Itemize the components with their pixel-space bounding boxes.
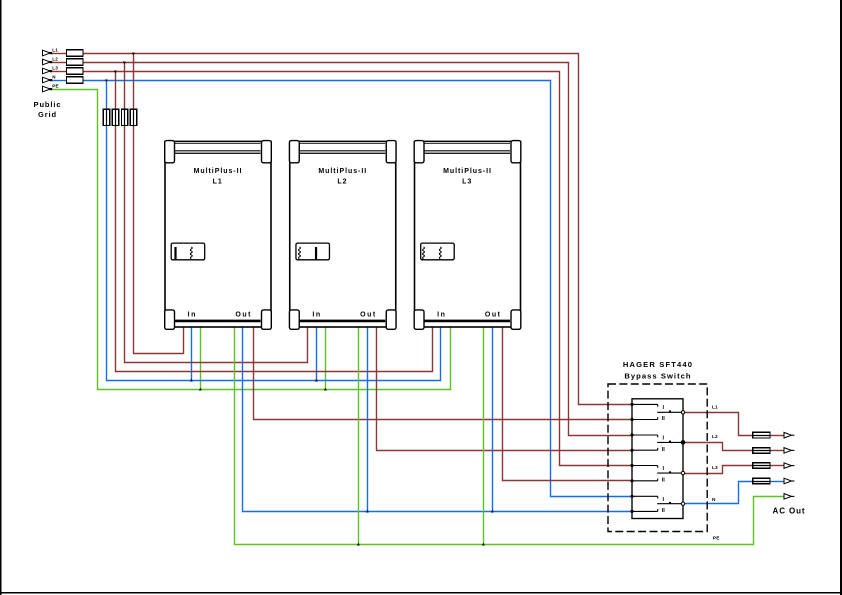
wire grid N horizontal to bypass: [52, 80, 67, 82]
junction N out bus at U3: [491, 510, 494, 513]
svg-text:Public: Public: [34, 100, 62, 109]
junction N bus at U2: [315, 379, 318, 382]
junction N tee at grid line: [105, 80, 108, 83]
switch pole 4 contact I: [634, 495, 658, 497]
svg-text:Bypass Switch: Bypass Switch: [624, 371, 691, 380]
svg-text:N: N: [712, 497, 716, 503]
wire PE branch up into unit U2 In: [325, 328, 327, 390]
switch pole 4 common blade: [657, 503, 681, 505]
inverter U3 MultiPlus-II L3 body: [415, 141, 521, 327]
wire U2 Out PE branch: [358, 328, 360, 545]
junction L1 tee at grid line: [132, 53, 135, 56]
drawing frame border: [0, 0, 2, 595]
junction PE out bus at U3: [482, 543, 485, 546]
U2 corner mounts: [289, 141, 299, 163]
svg-text:MultiPlus-II: MultiPlus-II: [443, 168, 492, 175]
switch pole 2 input terminals: [630, 433, 633, 436]
svg-text:In: In: [188, 311, 197, 318]
wire grid L2 horizontal to bypass: [52, 62, 67, 64]
terminal block L3: [67, 68, 84, 75]
junction L2 tee at grid line: [123, 62, 126, 65]
terminal AC Out PE: [784, 494, 792, 500]
switch pole 2 output terminal: [681, 440, 686, 445]
wire bypass L2 output to fuse F6: [685, 443, 753, 451]
wire PE output bus from units to AC Out PE terminal: [235, 328, 785, 545]
U3 connector box: [421, 243, 455, 260]
U1 connector box: [171, 243, 205, 260]
wire grid PE down and across to unit PE inputs: [52, 90, 451, 390]
svg-text:HAGER SFT440: HAGER SFT440: [623, 360, 693, 369]
fuse F7 (AC out): [753, 463, 770, 469]
svg-text:In: In: [437, 311, 446, 318]
svg-text:MultiPlus-II: MultiPlus-II: [194, 168, 243, 175]
wire N branch up into unit U1 In: [191, 328, 193, 381]
junction N bus at U1: [190, 379, 193, 382]
svg-text:MultiPlus-II: MultiPlus-II: [318, 168, 367, 175]
svg-text:L3: L3: [52, 65, 58, 70]
switch pole 1 contact II: [634, 419, 658, 421]
wire U2 Out N branch: [367, 328, 369, 512]
junction PE bus at U2: [324, 388, 327, 391]
terminal AC Out L2: [784, 448, 792, 454]
terminal Public Grid N: [43, 77, 51, 83]
wire bypass L3 output to fuse F7: [685, 466, 753, 474]
svg-text:II: II: [662, 477, 666, 483]
wire U3 Out PE branch: [483, 328, 485, 545]
junction L3 tee at grid line: [114, 71, 117, 74]
wire N drop through fuse F1 and across to unit N inputs: [106, 81, 108, 110]
switch pole 2 contact II: [634, 449, 658, 451]
terminal block N: [67, 77, 84, 84]
fuse F5 (AC out): [753, 432, 770, 438]
svg-text:L1: L1: [52, 47, 58, 52]
wire grid L3 horizontal to bypass: [52, 71, 67, 73]
U3 corner mounts: [414, 141, 424, 163]
switch pole 4 contact II: [634, 510, 658, 512]
switch pole 2 contact I: [634, 434, 658, 436]
wire bypass N output to fuse F8: [685, 482, 753, 504]
terminal AC Out L1: [784, 432, 792, 438]
wire N branch up into unit U2 In: [316, 328, 318, 381]
switch pole 3 contact I: [634, 465, 658, 467]
svg-text:PE: PE: [52, 83, 58, 88]
terminal Public Grid PE: [43, 86, 51, 92]
U2 connector box: [296, 243, 330, 260]
wire U1 Out L to bypass contact 1-II: [254, 328, 631, 420]
svg-text:L2: L2: [52, 56, 58, 61]
fuse F3 (L2): [121, 109, 127, 125]
svg-text:Out: Out: [360, 311, 377, 318]
junction PE bus at U1: [199, 388, 202, 391]
switch pole 1 output terminal: [681, 411, 684, 414]
switch pole 4 input terminals: [630, 495, 633, 498]
wire L3 drop through fuse F2 to unit U3 In L: [115, 72, 117, 110]
svg-text:Out: Out: [485, 311, 502, 318]
svg-text:PE: PE: [713, 536, 720, 542]
svg-text:L3: L3: [712, 465, 718, 471]
U1 corner mounts: [165, 141, 175, 163]
switch pole 3 common blade: [657, 472, 681, 474]
switch pole 2 common blade: [657, 441, 681, 443]
switch pole 3 output terminal: [681, 471, 684, 474]
switch pole 3 contact II: [634, 480, 658, 482]
inverter U1 MultiPlus-II L1 body: [165, 141, 271, 327]
svg-text:L2: L2: [712, 434, 718, 440]
terminal block L1: [67, 50, 84, 57]
terminal AC Out L3: [784, 463, 792, 469]
fuse F1 (N): [103, 109, 109, 125]
switch pole 1 common blade: [657, 411, 681, 413]
wire bypass L1 output to fuse F5: [685, 413, 753, 436]
wire U3 Out L to bypass contact 3-II: [503, 328, 631, 481]
bypass switch S1 HAGER SFT440 dashed enclosure: [608, 384, 707, 532]
wire L2 drop through fuse F3 to unit U2 In L: [124, 63, 126, 110]
terminal Public Grid L1: [43, 50, 51, 56]
fuse F6 (AC out): [753, 448, 770, 454]
svg-text:II: II: [662, 508, 666, 514]
switch pole 1 input terminals: [630, 403, 633, 406]
switch pole 1 contact I: [634, 403, 658, 405]
terminal block L2: [67, 59, 84, 66]
terminal Public Grid L3: [43, 68, 51, 74]
fuse F2 (L3): [112, 109, 118, 125]
wire U3 Out N branch: [492, 328, 494, 512]
svg-text:L2: L2: [337, 179, 347, 186]
fuse F8 (AC out): [753, 478, 770, 484]
terminal Public Grid L2: [43, 59, 51, 65]
svg-text:L3: L3: [462, 179, 472, 186]
svg-text:L1: L1: [712, 405, 718, 411]
svg-text:L1: L1: [213, 179, 223, 186]
bypass switch body: [632, 399, 683, 519]
svg-text:N: N: [52, 74, 56, 79]
svg-text:In: In: [312, 311, 321, 318]
wire N output bus from units to bypass contact 4-II: [243, 328, 631, 512]
wire grid L1 horizontal to bypass: [52, 53, 67, 55]
fuse F4 (L1): [130, 109, 136, 125]
svg-text:AC Out: AC Out: [773, 507, 806, 516]
terminal AC Out N: [784, 478, 792, 484]
svg-text:Grid: Grid: [38, 110, 57, 119]
svg-text:II: II: [662, 416, 666, 422]
wire PE branch up into unit U1 In: [200, 328, 202, 390]
svg-text:II: II: [662, 447, 666, 453]
wire L1 drop through fuse F4 to unit U1 In L: [133, 54, 135, 110]
inverter U2 MultiPlus-II L2 body: [290, 141, 396, 327]
switch pole 3 input terminals: [630, 464, 633, 467]
wire U2 Out L to bypass contact 2-II: [377, 328, 631, 451]
svg-text:Out: Out: [235, 311, 252, 318]
switch pole 4 output terminal: [681, 502, 684, 505]
junction N out bus at U2: [366, 510, 369, 513]
junction PE out bus at U2: [357, 543, 360, 546]
